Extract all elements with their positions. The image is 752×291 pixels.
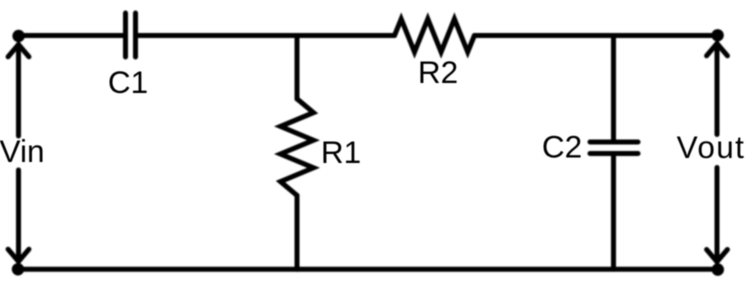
node bottom-right xyxy=(712,263,724,275)
wire bottom rail xyxy=(18,267,718,272)
svg-text:R1: R1 xyxy=(321,134,361,170)
node top-right xyxy=(711,29,723,41)
wire top rail right xyxy=(474,33,717,38)
capacitor C1 xyxy=(126,13,136,57)
wire Vin arrow upper shaft xyxy=(16,45,21,137)
wire R1 bottom stub xyxy=(295,195,300,269)
wire C2 bottom stub xyxy=(611,156,616,270)
wire Vin arrowhead up xyxy=(8,45,29,57)
node top-left xyxy=(12,30,24,42)
wire Vout arrow lower shaft xyxy=(715,168,720,262)
wire Vout arrowhead down xyxy=(707,250,728,262)
wire Vin arrowhead down xyxy=(8,249,29,261)
svg-text:C1: C1 xyxy=(108,64,148,100)
wire C2 top stub xyxy=(611,36,616,141)
wire R1 top stub xyxy=(295,36,300,100)
wire Vin arrow lower shaft xyxy=(16,170,21,262)
wire Vout arrowhead up xyxy=(707,44,728,56)
svg-text:R2: R2 xyxy=(418,54,458,90)
wire top rail middle xyxy=(138,33,395,38)
resistor R2 xyxy=(395,19,475,52)
capacitor C2 xyxy=(590,142,638,154)
svg-text:Vout: Vout xyxy=(677,129,746,165)
svg-text:Vin: Vin xyxy=(0,133,44,169)
wire top rail left xyxy=(19,33,123,38)
node bottom-left xyxy=(12,263,24,275)
wire Vout arrow upper shaft xyxy=(715,44,720,135)
resistor R1 xyxy=(281,99,314,196)
svg-text:C2: C2 xyxy=(542,129,582,165)
